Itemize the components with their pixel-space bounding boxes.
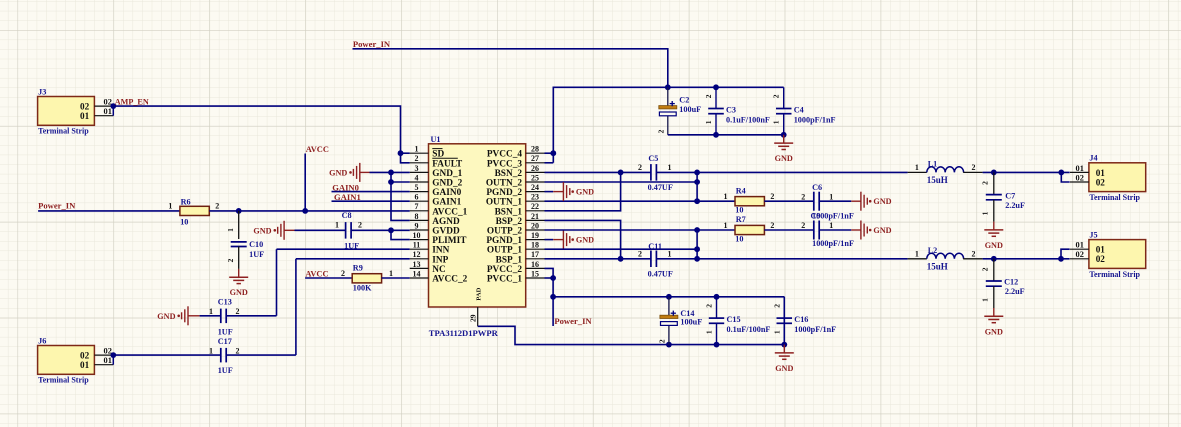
svg-text:1: 1 [915, 163, 919, 172]
svg-text:1000pF/1nF: 1000pF/1nF [794, 325, 836, 334]
svg-text:OUTP_2: OUTP_2 [487, 227, 522, 237]
svg-text:01: 01 [1096, 245, 1106, 255]
svg-text:GND: GND [873, 226, 891, 235]
svg-text:01: 01 [1096, 168, 1106, 178]
svg-text:2: 2 [358, 221, 362, 230]
svg-text:L2: L2 [928, 246, 938, 255]
svg-text:14: 14 [413, 269, 421, 278]
svg-text:2: 2 [705, 304, 714, 308]
svg-text:26: 26 [531, 164, 539, 173]
svg-text:13: 13 [413, 260, 421, 269]
svg-text:0.47UF: 0.47UF [648, 270, 673, 279]
svg-text:0.47UF: 0.47UF [648, 183, 673, 192]
svg-text:GND: GND [775, 154, 793, 163]
svg-text:GAIN0: GAIN0 [332, 183, 359, 193]
svg-text:J4: J4 [1089, 154, 1097, 163]
svg-text:C8: C8 [342, 211, 352, 220]
svg-text:02: 02 [1076, 250, 1084, 259]
svg-text:AVCC: AVCC [305, 269, 328, 278]
svg-text:01: 01 [80, 360, 90, 370]
svg-text:15: 15 [531, 269, 539, 278]
svg-text:GND: GND [329, 168, 347, 177]
svg-text:1: 1 [705, 330, 714, 334]
svg-text:02: 02 [1076, 173, 1084, 182]
svg-text:1: 1 [389, 269, 393, 278]
svg-text:GND: GND [253, 226, 271, 235]
svg-text:2: 2 [972, 163, 976, 172]
svg-text:2: 2 [981, 267, 990, 271]
svg-text:10: 10 [180, 218, 188, 227]
svg-text:1: 1 [168, 202, 172, 211]
svg-text:01: 01 [1076, 164, 1084, 173]
svg-text:C3: C3 [726, 106, 736, 115]
svg-text:2: 2 [704, 94, 713, 98]
svg-text:25: 25 [531, 173, 539, 182]
svg-text:20: 20 [531, 221, 539, 230]
svg-text:24: 24 [531, 183, 539, 192]
svg-text:J6: J6 [38, 336, 46, 345]
svg-text:GND: GND [775, 364, 793, 373]
svg-text:GND: GND [873, 197, 891, 206]
svg-text:22: 22 [531, 202, 539, 211]
svg-text:1UF: 1UF [218, 328, 233, 337]
svg-text:27: 27 [531, 154, 539, 163]
svg-text:8: 8 [415, 212, 419, 221]
svg-text:Power_IN: Power_IN [38, 201, 76, 211]
svg-text:100uF: 100uF [679, 105, 701, 114]
svg-text:3: 3 [415, 164, 419, 173]
svg-text:1: 1 [415, 145, 419, 154]
svg-text:02: 02 [1096, 177, 1106, 187]
svg-text:1000pF/1nF: 1000pF/1nF [794, 116, 836, 125]
svg-text:21: 21 [531, 212, 539, 221]
svg-text:16: 16 [531, 260, 539, 269]
svg-text:GAIN0: GAIN0 [432, 188, 461, 198]
svg-text:BSP_1: BSP_1 [496, 255, 523, 265]
svg-text:2: 2 [415, 154, 419, 163]
svg-text:GND: GND [157, 312, 175, 321]
svg-text:10: 10 [735, 235, 743, 244]
svg-text:2: 2 [658, 339, 667, 343]
svg-text:Terminal Strip: Terminal Strip [38, 376, 89, 385]
svg-text:R6: R6 [181, 198, 191, 207]
svg-text:TPA3112D1PWPR: TPA3112D1PWPR [429, 328, 499, 338]
svg-text:1: 1 [226, 228, 235, 232]
svg-text:28: 28 [531, 145, 539, 154]
svg-text:2: 2 [801, 193, 805, 202]
svg-text:1UF: 1UF [249, 250, 264, 259]
svg-text:2: 2 [236, 307, 240, 316]
svg-text:2: 2 [657, 129, 666, 133]
svg-text:C16: C16 [794, 315, 808, 324]
svg-text:PLIMIT: PLIMIT [432, 236, 467, 246]
svg-text:1: 1 [772, 120, 781, 124]
svg-text:L1: L1 [928, 159, 938, 168]
svg-text:GAIN1: GAIN1 [432, 198, 461, 208]
svg-text:AMP_EN: AMP_EN [115, 98, 149, 107]
svg-text:01: 01 [104, 107, 112, 116]
svg-text:15uH: 15uH [927, 262, 948, 272]
svg-text:10: 10 [735, 206, 743, 215]
svg-text:1: 1 [915, 250, 919, 259]
svg-text:1000pF/1nF: 1000pF/1nF [812, 239, 854, 248]
svg-text:02: 02 [80, 351, 90, 361]
svg-text:PVCC_1: PVCC_1 [487, 275, 522, 285]
svg-text:OUTN_1: OUTN_1 [486, 198, 523, 208]
svg-text:GND: GND [576, 236, 594, 245]
svg-text:AVCC_2: AVCC_2 [432, 275, 467, 285]
svg-text:PAD: PAD [475, 287, 482, 300]
svg-text:C14: C14 [680, 309, 694, 318]
svg-text:2: 2 [972, 250, 976, 259]
svg-text:1: 1 [668, 163, 672, 172]
svg-text:01: 01 [104, 356, 112, 365]
svg-text:0.1uF/100nF: 0.1uF/100nF [727, 325, 771, 334]
svg-text:C4: C4 [794, 106, 804, 115]
svg-text:23: 23 [531, 193, 539, 202]
svg-text:R7: R7 [736, 215, 746, 224]
svg-text:12: 12 [413, 250, 421, 259]
svg-text:INN: INN [432, 246, 449, 256]
svg-text:C6: C6 [812, 183, 822, 192]
svg-text:C13: C13 [218, 298, 232, 307]
svg-text:02: 02 [1096, 254, 1106, 264]
svg-text:BSN_2: BSN_2 [495, 169, 523, 179]
svg-text:2: 2 [215, 202, 219, 211]
svg-text:C5: C5 [648, 154, 658, 163]
svg-text:OUTN_2: OUTN_2 [486, 179, 523, 189]
svg-text:2: 2 [770, 221, 774, 230]
svg-text:5: 5 [415, 183, 419, 192]
svg-text:PVCC_3: PVCC_3 [487, 159, 522, 169]
svg-text:2: 2 [772, 304, 781, 308]
svg-text:C17: C17 [218, 337, 232, 346]
svg-text:GND: GND [230, 288, 248, 297]
svg-text:1: 1 [829, 193, 833, 202]
svg-text:6: 6 [415, 193, 419, 202]
svg-text:U1: U1 [431, 135, 441, 144]
svg-text:Power_IN: Power_IN [353, 39, 391, 49]
svg-text:01: 01 [1076, 241, 1084, 250]
svg-text:29: 29 [469, 314, 478, 322]
svg-text:PGND_2: PGND_2 [486, 188, 522, 198]
svg-text:1: 1 [829, 221, 833, 230]
svg-text:2: 2 [341, 269, 345, 278]
svg-text:4: 4 [415, 173, 419, 182]
svg-text:1: 1 [209, 346, 213, 355]
svg-text:GND: GND [985, 327, 1003, 336]
svg-text:1: 1 [772, 330, 781, 334]
svg-text:10: 10 [413, 231, 421, 240]
svg-text:2: 2 [772, 94, 781, 98]
svg-text:AVCC_1: AVCC_1 [432, 207, 467, 217]
svg-text:1: 1 [981, 211, 990, 215]
svg-text:11: 11 [413, 241, 421, 250]
svg-text:PGND_1: PGND_1 [486, 236, 522, 246]
svg-text:BSP_2: BSP_2 [496, 217, 523, 227]
svg-text:9: 9 [415, 221, 419, 230]
svg-text:2: 2 [638, 163, 642, 172]
svg-text:15uH: 15uH [927, 175, 948, 185]
svg-text:1: 1 [981, 298, 990, 302]
svg-text:100K: 100K [353, 283, 372, 292]
svg-text:1: 1 [724, 192, 728, 201]
svg-text:J3: J3 [38, 87, 46, 96]
svg-text:FAULT: FAULT [432, 159, 463, 169]
svg-text:C12: C12 [1004, 278, 1018, 287]
svg-text:02: 02 [80, 102, 90, 112]
svg-text:2: 2 [226, 258, 235, 262]
svg-text:1UF: 1UF [218, 366, 233, 375]
svg-text:Terminal Strip: Terminal Strip [1089, 270, 1140, 279]
svg-text:AGND: AGND [432, 217, 460, 227]
svg-text:18: 18 [531, 241, 539, 250]
svg-text:R4: R4 [736, 186, 746, 195]
svg-text:GVDD: GVDD [432, 227, 460, 237]
svg-text:NC: NC [432, 265, 445, 275]
svg-text:1: 1 [704, 120, 713, 124]
svg-text:1: 1 [209, 307, 213, 316]
svg-text:C10: C10 [249, 240, 263, 249]
svg-text:J5: J5 [1089, 230, 1097, 239]
svg-text:C2: C2 [679, 96, 689, 105]
svg-text:0.1uF/100nF: 0.1uF/100nF [726, 116, 770, 125]
svg-text:2: 2 [236, 346, 240, 355]
svg-text:2: 2 [801, 221, 805, 230]
svg-text:Terminal Strip: Terminal Strip [38, 127, 89, 136]
svg-text:2.2uF: 2.2uF [1005, 287, 1025, 296]
svg-text:C15: C15 [727, 315, 741, 324]
svg-text:BSN_1: BSN_1 [495, 207, 523, 217]
svg-text:AVCC: AVCC [306, 145, 329, 154]
svg-text:INP: INP [432, 255, 448, 265]
svg-text:2: 2 [770, 192, 774, 201]
svg-text:100uF: 100uF [680, 318, 702, 327]
svg-text:1: 1 [724, 221, 728, 230]
svg-text:2.2uF: 2.2uF [1005, 201, 1025, 210]
svg-text:17: 17 [531, 250, 539, 259]
svg-text:GND_2: GND_2 [432, 179, 462, 189]
svg-text:19: 19 [531, 231, 539, 240]
svg-text:OUTP_1: OUTP_1 [487, 246, 522, 256]
svg-text:PVCC_4: PVCC_4 [487, 150, 522, 160]
svg-text:R9: R9 [353, 263, 363, 272]
svg-text:Power_IN: Power_IN [554, 316, 592, 326]
svg-text:GAIN1: GAIN1 [334, 192, 361, 202]
svg-text:GND: GND [576, 188, 594, 197]
svg-text:1000pF/1nF: 1000pF/1nF [812, 212, 854, 221]
svg-text:GND_1: GND_1 [432, 169, 462, 179]
svg-text:01: 01 [80, 111, 90, 121]
svg-text:2: 2 [981, 181, 990, 185]
svg-text:2: 2 [638, 250, 642, 259]
svg-text:C7: C7 [1005, 191, 1015, 200]
svg-text:PVCC_2: PVCC_2 [487, 265, 522, 275]
svg-text:7: 7 [415, 202, 419, 211]
svg-text:1: 1 [335, 221, 339, 230]
svg-text:1: 1 [668, 250, 672, 259]
svg-text:Terminal Strip: Terminal Strip [1089, 193, 1140, 202]
svg-text:GND: GND [985, 241, 1003, 250]
